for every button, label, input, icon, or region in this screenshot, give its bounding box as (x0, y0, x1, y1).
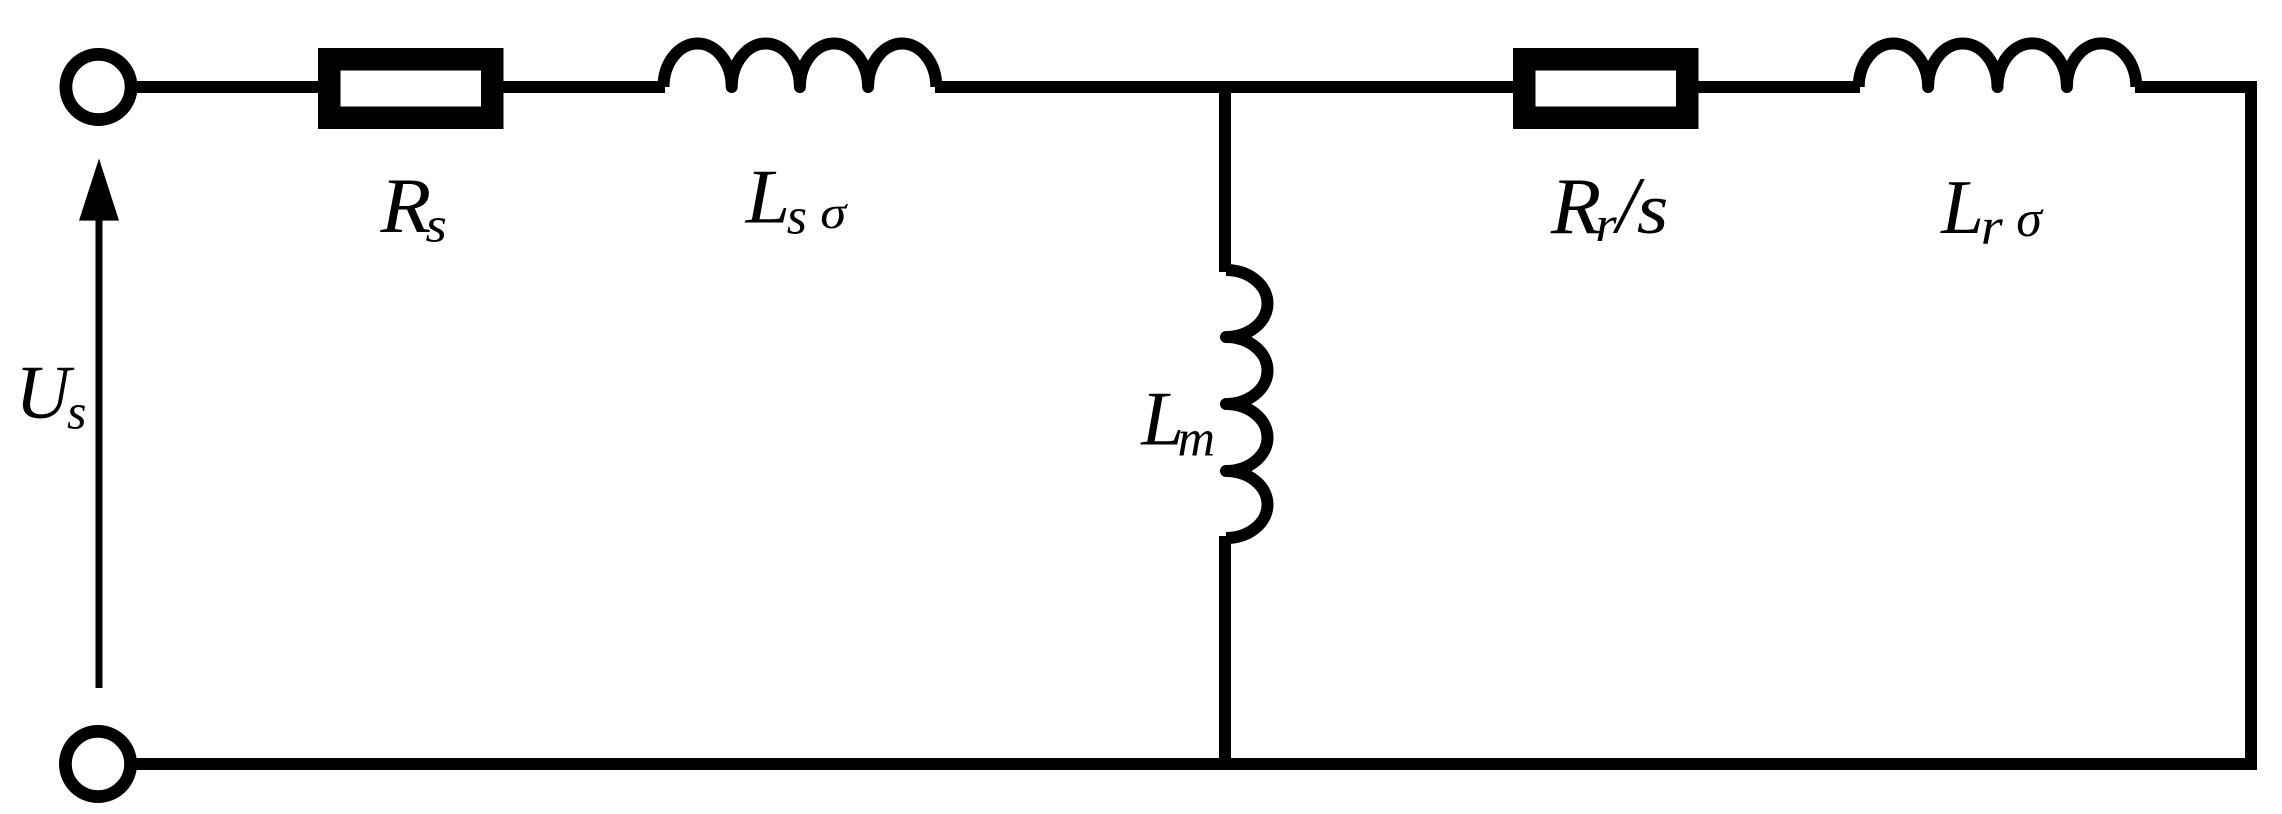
wire top-left to Rs (136, 81, 320, 93)
terminal bottom-left (65, 731, 130, 796)
svg-text:U: U (15, 351, 74, 435)
node wire down to Lm (1219, 87, 1231, 272)
wire right side down (2135, 87, 2251, 770)
wire Rr to Lr (1698, 81, 1860, 93)
svg-text:L: L (1940, 164, 1984, 250)
svg-text:s: s (67, 384, 86, 440)
svg-text:r: r (1981, 198, 2004, 256)
resistor Rr/s (1524, 59, 1687, 118)
resistor Rs (329, 59, 492, 118)
inductor Lm (1226, 270, 1268, 538)
voltage arrow Us shaft (96, 220, 103, 688)
bottom wire (136, 758, 2251, 770)
svg-text:R: R (379, 163, 431, 249)
wire Lm to bottom (1219, 536, 1231, 764)
svg-text:σ: σ (2016, 191, 2044, 248)
wire Ls to Rr (through node) (935, 81, 1514, 93)
svg-text:s: s (426, 198, 447, 253)
svg-text:m: m (1178, 411, 1216, 468)
svg-text:s: s (1637, 169, 1669, 249)
svg-text:σ: σ (820, 187, 848, 239)
voltage arrow Us head (79, 159, 119, 221)
inductor Ls_sigma (664, 43, 937, 87)
svg-text:L: L (745, 154, 791, 239)
inductor Lr_sigma (1859, 43, 2137, 87)
svg-text:R: R (1550, 162, 1601, 251)
terminal top-left (66, 54, 131, 119)
wire Rs to Ls (503, 81, 665, 93)
svg-text:s: s (787, 188, 807, 245)
svg-text:r: r (1595, 197, 1617, 252)
